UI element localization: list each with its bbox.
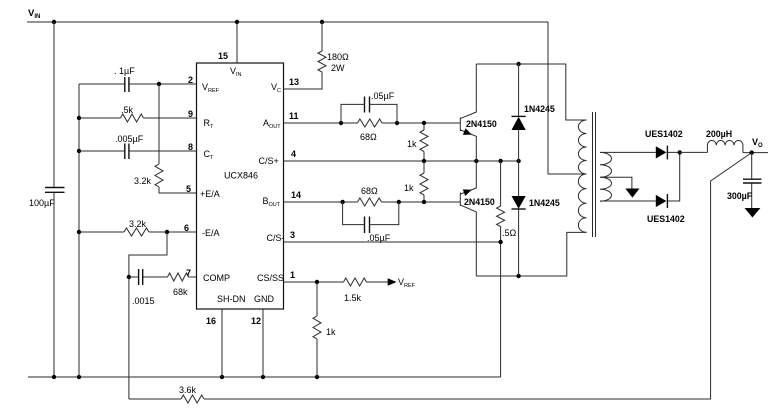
capacitor .0015 (132, 269, 155, 306)
wire top VIN rail (27, 21, 548, 23)
svg-text:9: 9 (188, 109, 193, 119)
svg-text:UES1402: UES1402 (647, 214, 685, 224)
node VO junction (750, 150, 754, 154)
node junction -E/A x167 (165, 230, 169, 234)
svg-text:+E/A: +E/A (200, 189, 220, 199)
node junction cs+ x518 (516, 159, 520, 163)
wire VREF divider branch (159, 84, 197, 193)
wire bottom feedback line with 3.6k (129, 153, 752, 399)
node junction cs+ x424 (422, 159, 426, 163)
node junction aout x397 (395, 121, 399, 125)
wire inductor to VO (743, 152, 768, 154)
node VREF output arrow (388, 277, 416, 289)
transformer T1 core (593, 112, 596, 237)
node junction top rail x322 (320, 20, 324, 24)
wire left vertical upper (53, 22, 55, 187)
transistor Q1 2N4150 top (460, 64, 497, 161)
svg-text:GND: GND (254, 294, 275, 304)
ground output (745, 208, 761, 218)
svg-text:5: 5 (186, 184, 191, 194)
diode UES1402 bottom (647, 194, 685, 224)
wire VIN to transformer center tap (548, 22, 587, 174)
wire secondary top terminal (600, 151, 680, 153)
svg-text:SH-DN: SH-DN (217, 294, 246, 304)
capacitor 300uF (727, 153, 762, 209)
node junction x159 y84 (157, 82, 161, 86)
svg-text:2N4150: 2N4150 (464, 197, 495, 207)
svg-text:UCX846: UCX846 (224, 171, 258, 181)
diode 1N4245 top (512, 64, 555, 161)
wire CS/SS row pin1 (284, 281, 389, 283)
svg-text:C/S-: C/S- (267, 233, 285, 243)
svg-text:3: 3 (290, 230, 295, 240)
node junction top rail x54 (52, 20, 56, 24)
wire VC pin13 to 180ohm (284, 22, 323, 89)
wire pin15 stub (236, 22, 238, 63)
capacitor .05uF A with loop (341, 91, 397, 123)
resistor .5k (121, 105, 144, 122)
node junction cs+ x476 (474, 159, 478, 163)
node junction top rail x237 (235, 20, 239, 24)
svg-text:3.2k: 3.2k (129, 219, 147, 229)
wire VREF row pin2 (79, 83, 197, 85)
transformer T1 primary winding (578, 120, 586, 232)
node junction cs- x500 (498, 240, 502, 244)
capacitor .005uF (115, 134, 144, 159)
svg-text:6: 6 (184, 223, 189, 233)
svg-text:1N4245: 1N4245 (524, 104, 555, 114)
wire pin12 stub (262, 309, 264, 377)
inductor 200uH (706, 129, 743, 153)
svg-text:3.6k: 3.6k (179, 385, 197, 395)
svg-text:4: 4 (291, 149, 296, 159)
svg-text:1k: 1k (407, 139, 417, 149)
diode 1N4245 bottom (512, 161, 560, 276)
wire secondary bottom terminal (600, 152, 680, 201)
svg-text:13: 13 (289, 77, 299, 87)
node junction gnd x54 (52, 375, 56, 379)
node junction aout x424 (422, 121, 426, 125)
node junction gnd x263 (261, 375, 265, 379)
node junction cs/ss x317 (315, 280, 319, 284)
svg-text:.0015: .0015 (132, 296, 155, 306)
svg-text:2N4150: 2N4150 (466, 119, 497, 129)
svg-text:100µF: 100µF (29, 198, 55, 208)
resistor 1k upper (407, 123, 428, 161)
wire BOUT row pin14 (284, 201, 461, 203)
capacitor 100uF (29, 188, 65, 209)
svg-text:UES1402: UES1402 (645, 129, 683, 139)
wire RT row pin9 (79, 117, 197, 119)
node junction diode bottom x518 (516, 274, 520, 278)
resistor 1k lower (404, 161, 428, 202)
svg-text:16: 16 (206, 316, 216, 326)
wire Q2 collector to primary bottom (476, 232, 586, 276)
svg-text:300µF: 300µF (727, 191, 753, 201)
wire C/S- row pin3 (284, 241, 501, 243)
capacitor .05uF B with loop (343, 202, 399, 243)
resistor 1.5k (344, 278, 367, 303)
resistor 68k (168, 273, 189, 297)
resistor .5ohm current sense (497, 161, 517, 377)
wire secondary center tap (600, 177, 632, 189)
svg-text:1k: 1k (404, 183, 414, 193)
svg-text:68k: 68k (173, 287, 188, 297)
wire AOUT row pin11 (284, 122, 461, 124)
node junction comp x129 (127, 275, 131, 279)
svg-text:68Ω: 68Ω (361, 186, 378, 196)
op-amp U1 UCX846 IC body (197, 63, 285, 309)
wire feedback branch to COMP (129, 232, 167, 399)
resistor 3.6k (179, 385, 204, 403)
node junction cs+ x500 (498, 159, 502, 163)
wire pin16 stub (221, 309, 223, 377)
resistor 3.2k vertical (134, 164, 163, 187)
svg-text:3.2k: 3.2k (134, 176, 152, 186)
wire C/S+ row pin4 (284, 160, 519, 162)
svg-text:.5k: .5k (121, 105, 134, 115)
svg-text:COMP: COMP (203, 273, 230, 283)
svg-text:1.5k: 1.5k (344, 293, 362, 303)
svg-text:14: 14 (291, 190, 301, 200)
resistor 3.2k horizontal (124, 219, 149, 236)
node junction diode top x518 (516, 62, 520, 66)
svg-text:8: 8 (188, 142, 193, 152)
svg-text:C/S+: C/S+ (259, 156, 279, 166)
capacitor .1uF (114, 66, 135, 92)
wire CT row pin8 (79, 150, 197, 152)
wire left vertical lower (53, 192, 55, 377)
transistor Q2 2N4150 bottom (460, 161, 495, 276)
wire left bias bus (78, 84, 80, 377)
svg-text:68Ω: 68Ω (360, 132, 377, 142)
wire -E/A row pin6 (79, 231, 197, 233)
ground secondary center tap (625, 189, 639, 198)
svg-text:1N4245: 1N4245 (529, 198, 560, 208)
wire Q1 collector to primary top (476, 64, 586, 120)
transformer T1 secondary winding (600, 152, 612, 201)
svg-text:.05µF: .05µF (371, 91, 395, 101)
svg-text:CS/SS: CS/SS (257, 273, 284, 283)
wire ground rail (28, 376, 501, 378)
node junction bout x398 (397, 200, 401, 204)
node junction bus y232 (77, 230, 81, 234)
resistor 180ohm 2W (318, 51, 349, 73)
node junction rectifier output (678, 150, 682, 154)
wire rectifier output to inductor (680, 151, 708, 153)
svg-text:. 1µF: . 1µF (114, 66, 135, 76)
svg-text:11: 11 (289, 111, 299, 121)
svg-text:2W: 2W (331, 63, 345, 73)
svg-text:.005µF: .005µF (115, 134, 144, 144)
node junction bout x424 (422, 200, 426, 204)
node junction bus y118 (77, 116, 81, 120)
svg-text:12: 12 (251, 316, 261, 326)
svg-text:1k: 1k (326, 327, 336, 337)
svg-text:.5Ω: .5Ω (502, 228, 517, 238)
node junction bout x342 (340, 200, 344, 204)
resistor 1k bottom (313, 282, 336, 377)
svg-text:2: 2 (188, 75, 193, 85)
node junction gnd x79 (77, 375, 81, 379)
svg-text:15: 15 (218, 51, 228, 61)
resistor 68ohm A (358, 119, 383, 142)
svg-text:7: 7 (186, 268, 191, 278)
resistor 68ohm B (358, 186, 382, 206)
node junction gnd x222 (220, 375, 224, 379)
node junction bus y151 (77, 149, 81, 153)
svg-text:1: 1 (290, 270, 295, 280)
node junction aout x341 (339, 121, 343, 125)
svg-text:-E/A: -E/A (202, 228, 220, 238)
node junction gnd x317 (315, 375, 319, 379)
svg-text:200µH: 200µH (706, 129, 732, 139)
diode UES1402 top (645, 129, 683, 160)
wire COMP row pin7 (129, 276, 197, 278)
svg-text:180Ω: 180Ω (327, 52, 349, 62)
